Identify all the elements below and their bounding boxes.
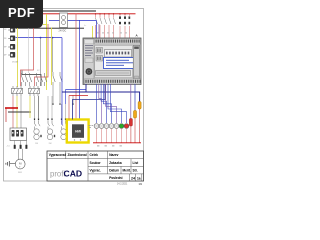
svg-text:Zakazka: Zakazka [109, 161, 122, 165]
svg-text:1K1M: 1K1M [12, 62, 18, 64]
svg-text:Celek: Celek [90, 153, 99, 157]
svg-text:Str.: Str. [133, 168, 138, 172]
svg-text:Merit.: Merit. [123, 168, 132, 172]
svg-text:Datum: Datum [109, 168, 119, 172]
svg-text:2M: 2M [49, 143, 52, 145]
svg-text:24VDC: 24VDC [59, 30, 67, 33]
svg-text:Vyprac.: Vyprac. [90, 168, 102, 172]
svg-text:Vypracoval: Vypracoval [49, 153, 66, 157]
svg-text:1a: 1a [137, 177, 141, 181]
svg-text:14.2.2021: 14.2.2021 [117, 184, 128, 186]
svg-text:HMI: HMI [75, 130, 81, 134]
svg-text:24: 24 [131, 177, 135, 181]
svg-text:List: List [133, 161, 140, 165]
svg-text:3~: 3~ [19, 167, 21, 169]
svg-text:Zkontroloval: Zkontroloval [68, 153, 87, 157]
svg-text:Soubor: Soubor [90, 161, 102, 165]
svg-text:Posledni: Posledni [109, 176, 122, 180]
svg-text:Nazev: Nazev [109, 153, 118, 157]
svg-text:1M: 1M [35, 143, 38, 145]
svg-text:CAD: CAD [64, 169, 83, 179]
